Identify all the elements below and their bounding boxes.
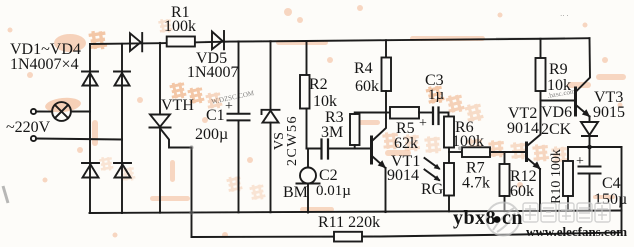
wire R11 bottom run [192,233,622,238]
svg-text:100k: 100k [452,133,484,150]
wire top rail [90,38,590,44]
svg-text:cn: cn [502,207,523,229]
svg-text:10k: 10k [313,93,337,110]
svg-text:62k: 62k [394,135,418,152]
capacitor C4 [579,147,601,211]
diode Da (series diode on top rail) [130,33,142,51]
svg-text:~220V: ~220V [6,119,51,136]
transistor VT2 [527,90,541,211]
svg-text:1N4007×4: 1N4007×4 [10,56,79,73]
resistor R6 [444,117,454,153]
svg-text:R10 100k: R10 100k [549,149,564,204]
svg-text:+: + [225,99,233,114]
svg-text:9014: 9014 [507,120,539,137]
resistor R10 [563,147,573,211]
svg-text:60k: 60k [510,183,534,200]
svg-text:VD6: VD6 [541,104,572,121]
transistor VT1 [372,113,387,213]
AC terminal upper [31,109,36,114]
svg-text:10k: 10k [547,77,571,94]
thyristor VTH [150,43,192,237]
svg-text:9014: 9014 [387,167,419,184]
svg-text:www.elecfans.com: www.elecfans.com [526,224,627,239]
svg-text:+: + [419,116,427,131]
resistor R9 [536,39,546,91]
resistor R2 [300,41,310,149]
svg-text:0.01µ: 0.01µ [316,183,351,199]
diode VD3 (bridge leg1 lower) [82,163,99,178]
svg-text:R4: R4 [354,60,373,77]
elecfans emblem circle [487,203,520,236]
svg-text:4.7k: 4.7k [462,175,490,192]
resistor R7 [449,147,526,157]
resistor R5 [386,107,432,119]
AC terminal lower [31,136,36,141]
wire C4 node down to R11 line [621,147,623,233]
svg-text:2CK: 2CK [541,121,572,138]
gray smudge dots [189,145,462,215]
wire AC lower to leg2 [36,139,122,140]
wire R9 to VT3 base [541,100,575,102]
svg-text:R2: R2 [309,76,328,93]
photoresistor RG [425,152,455,211]
svg-text:BM: BM [283,184,308,201]
capacitor C2 [307,140,371,159]
stray mark bottom-left corner [3,186,8,203]
ybx8.cn text [453,207,523,229]
resistor R1 [167,37,195,47]
svg-text:1µ: 1µ [428,87,445,103]
resistor R4 [382,40,392,112]
svg-text:9015: 9015 [593,104,625,121]
lamp (bulb) [36,102,90,121]
microphone BM [297,149,320,213]
svg-text:RG: RG [421,181,444,198]
diode VD2 (bridge leg2 upper) [114,72,130,86]
svg-text:3M: 3M [321,124,343,141]
svg-text:VTH: VTH [161,97,194,114]
capacitor C3 [433,108,449,125]
wire bridge leg 2 [121,44,123,213]
svg-text:1N4007: 1N4007 [187,64,239,81]
diode VD5 [212,31,224,49]
svg-text:100k: 100k [164,18,196,35]
svg-text:200µ: 200µ [195,126,228,143]
diode VD6 [581,117,598,148]
svg-text:·· ·: ·· · [560,12,569,20]
elecfans outlined characters [523,203,610,222]
resistor R12 [500,152,510,211]
svg-text:60k: 60k [355,78,379,95]
resistor R11 [334,232,362,242]
transistor VT3 [576,38,591,117]
node VD6/C4/R10 junction [568,145,622,150]
resistor R3 [350,113,386,149]
svg-text:R11 220k: R11 220k [318,214,380,231]
capacitor C1 [228,41,250,212]
diode VD4 (bridge leg2 lower) [114,163,131,178]
svg-text:C2: C2 [319,167,338,184]
svg-text:+: + [576,154,584,169]
svg-text:R9: R9 [549,61,568,78]
diode VD1 (bridge leg1 upper) [82,72,98,86]
wire ground rail [90,211,622,214]
svg-text:2CW56: 2CW56 [285,115,300,166]
zener VS [262,41,280,212]
svg-text:C1: C1 [206,107,225,124]
svg-text:ybx8: ybx8 [453,207,496,229]
wire bridge leg 1 [89,44,91,213]
svg-text:C4: C4 [602,175,621,192]
